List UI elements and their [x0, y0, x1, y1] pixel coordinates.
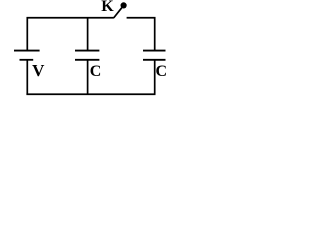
capacitor C (right) top plate [143, 50, 166, 52]
wire: bottom rail [26, 93, 155, 95]
capacitor C (middle) bottom plate [75, 59, 99, 61]
wire: middle branch lower vertical [87, 60, 89, 94]
capacitor C (middle) top plate [75, 50, 99, 52]
svg-text:V: V [32, 61, 45, 80]
svg-text:C: C [90, 63, 102, 80]
svg-text:K: K [101, 0, 114, 15]
svg-text:C: C [156, 63, 168, 80]
wire: right branch lower vertical [154, 60, 156, 94]
switch K pivot dot [121, 2, 127, 8]
battery V top plate (long) [14, 50, 40, 52]
wire: middle branch upper vertical [87, 18, 89, 51]
wire: top rail right segment and top-right corner [127, 18, 155, 51]
wire: battery lower vertical [26, 60, 28, 94]
battery V bottom plate (short) [20, 59, 34, 61]
capacitor C (right) bottom plate [143, 59, 166, 61]
wire: top-left corner, top rail left segment [27, 18, 114, 51]
circuit figure: battery V, switch K, capacitors C and C [0, 0, 205, 108]
switch K lever [114, 8, 122, 18]
